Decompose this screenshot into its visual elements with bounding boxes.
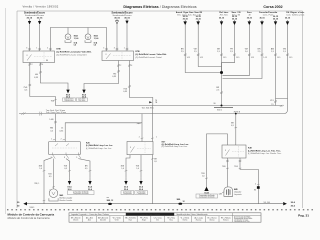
- svg-text:1,6: 1,6: [74, 44, 77, 46]
- svg-text:1,0: 1,0: [121, 168, 124, 170]
- pin ticks K35 right top: [105, 48, 128, 50]
- svg-text:Negro: Negro: [142, 220, 146, 222]
- svg-text:(L) Relé/Relè Limp. Lav. Lun.: (L) Relé/Relè Limp. Lav. Lun.: [162, 146, 188, 148]
- svg-text:Legenda / Leyenda — Cores dos: Legenda / Leyenda — Cores dos Fios / Col…: [71, 214, 109, 216]
- svg-text:E7B: E7B: [57, 49, 62, 51]
- wire S13 to washer pump M45: [53, 159, 55, 189]
- svg-text:8: 8: [64, 157, 65, 159]
- connector arrow X9 left: [66, 90, 69, 94]
- page edge shadow: [5, 8, 7, 214]
- svg-text:Limpiador: Limpiador: [234, 194, 242, 196]
- wire K35 left pin 4 to connector X9: [40, 63, 68, 86]
- svg-text:Sombreado/Oscuro: Sombreado/Oscuro: [25, 15, 45, 17]
- wire hook col4 to junction: [222, 25, 235, 71]
- bus2 right rounded rise to col7 line: [284, 99, 288, 114]
- svg-text:30-15: 30-15: [285, 17, 291, 19]
- wire hook col1 to junction: [185, 25, 220, 73]
- svg-text:Bomba Lavador: Bomba Lavador: [60, 200, 73, 202]
- svg-text:AM: AM: [271, 48, 274, 51]
- inline connector on right drop: [257, 186, 260, 189]
- svg-text:1: 1: [124, 47, 125, 49]
- svg-text:76/76 B: 76/76 B: [234, 111, 241, 113]
- relay K38 box: [222, 145, 246, 158]
- svg-text:(L) Relé/Relè Levant. Vidro El: (L) Relé/Relè Levant. Vidro Elét.: [136, 53, 168, 56]
- pin ticks K35 left bottom: [29, 63, 42, 65]
- svg-text:75B, 1: 75B, 1: [34, 183, 39, 185]
- pin ticks K38 bottom: [226, 160, 241, 162]
- svg-text:Rosa: Rosa: [169, 220, 173, 222]
- wire S13 to connector X3 right: [78, 159, 90, 178]
- svg-text:0,5: 0,5: [85, 168, 88, 170]
- wire K38 to bottom bus via right drop: [240, 158, 258, 204]
- wire K20 pin to connector X2 left: [126, 155, 130, 178]
- wire supply to K35 left pin b: [39, 25, 41, 51]
- connector open arrow into K35 right: [116, 19, 118, 21]
- svg-text:BC = Branco: BC = Branco: [208, 218, 217, 220]
- svg-text:30-15: 30-15: [219, 17, 225, 19]
- bus wire 1 main feed: [55, 105, 282, 107]
- wire K38 to wiper motor M45b: [227, 158, 229, 187]
- svg-text:Marrón: Marrón: [73, 220, 78, 222]
- connector arrow col2: [197, 20, 199, 21]
- washer pump motor M45: [49, 189, 58, 198]
- connector arrow X9 right: [82, 90, 85, 94]
- bus wire 2: [19, 113, 284, 115]
- footer strip dark title: [126, 213, 174, 216]
- svg-text:1-15: 1-15: [187, 57, 190, 59]
- page break dashed line: [7, 209, 313, 211]
- svg-text:1-15: 1-15: [277, 57, 280, 59]
- svg-text:HG: HG: [113, 73, 116, 75]
- svg-text:(L) Relé/Relè Levant. Cristal: (L) Relé/Relè Levant. Cristal: [136, 56, 163, 59]
- connector arrow X2 left: [125, 178, 127, 181]
- svg-text:30-15: 30-15: [259, 17, 265, 19]
- bottom bus wire: [27, 203, 283, 205]
- connector arrow col8: [287, 20, 289, 21]
- svg-text:VM = Vermelho: VM = Vermelho: [125, 218, 136, 220]
- svg-text:Rel. Inter.: Rel. Inter.: [220, 13, 229, 16]
- svg-text:Naranja: Naranja: [196, 220, 202, 222]
- bus2 pass-through connector: [39, 112, 42, 116]
- svg-text:4: 4: [42, 64, 43, 66]
- boxed destination label under X3 arrows: [68, 191, 95, 195]
- svg-text:Versão / Versión 1993/02: Versão / Versión 1993/02: [23, 5, 59, 9]
- bottom bus junction blob: [178, 203, 182, 205]
- svg-text:30-15: 30-15: [114, 17, 120, 19]
- boxed destination label under X1: [196, 194, 218, 198]
- svg-text:Rojo: Rojo: [129, 220, 132, 222]
- svg-text:15: 15: [61, 128, 63, 130]
- svg-text:RS = Rosa: RS = Rosa: [167, 218, 175, 220]
- svg-text:2: 2: [61, 139, 62, 141]
- wire K35 right pin to connector X9 right: [84, 61, 119, 86]
- junction node dot: [220, 71, 223, 74]
- svg-text:36B,: 36B,: [177, 199, 181, 201]
- svg-text:Corsa 2002: Corsa 2002: [263, 5, 282, 9]
- svg-text:1-15: 1-15: [251, 57, 254, 59]
- relay K20 box: [127, 142, 153, 155]
- svg-text:86: 86: [46, 60, 48, 62]
- svg-text:HG: HG: [35, 74, 38, 76]
- connector arrow col5: [248, 20, 250, 21]
- wire K35 left pin 2 to bus1: [30, 63, 56, 106]
- boxed destination labels under X2 arrows: [121, 191, 134, 195]
- svg-text:0,35: 0,35: [60, 130, 64, 132]
- wire rail between K35 relays feeding motors: [50, 28, 106, 52]
- connector arrow col6: [261, 20, 263, 21]
- svg-text:1-15: 1-15: [289, 57, 292, 59]
- svg-text:2: 2: [120, 65, 121, 67]
- svg-text:Gris: Gris: [156, 220, 159, 222]
- svg-text:30: 30: [213, 103, 215, 105]
- connector arrow col3: [221, 20, 223, 21]
- svg-text:986: 986: [50, 128, 53, 130]
- svg-text:X4, 1-B: X4, 1-B: [264, 202, 271, 204]
- wire hook col5 to junction: [223, 25, 250, 76]
- svg-text:5: 5: [76, 157, 77, 159]
- svg-text:BR = Marrom: BR = Marrom: [71, 218, 81, 220]
- connector arrow into pin 3 of K35 left: [29, 19, 31, 21]
- svg-text:M45: M45: [234, 188, 238, 191]
- svg-text:(L) Relé/Relè Limp. Lav. Lse.: (L) Relé/Relè Limp. Lav. Lse.: [86, 148, 112, 150]
- connector arrow col7: [275, 20, 277, 21]
- svg-text:Verde: Verde: [115, 220, 119, 222]
- connector arrow X2 right: [140, 178, 142, 181]
- svg-text:1: 1: [156, 136, 157, 138]
- svg-text:1,0: 1,0: [136, 168, 139, 170]
- svg-text:(L) Relé/Relè Limp. Lav. Trás.: (L) Relé/Relè Limp. Lav. Trás. Tras.: [248, 150, 281, 152]
- switch S13 wiper switch box: [49, 142, 81, 155]
- connector arrow into K35 right: [126, 19, 128, 21]
- svg-text:1,6: 1,6: [94, 44, 97, 46]
- svg-text:X30 1: X30 1: [30, 207, 35, 209]
- wire stub motor M32: [67, 28, 69, 34]
- svg-text:30-15: 30-15: [37, 18, 43, 20]
- svg-text:2: 2: [139, 136, 140, 138]
- bottom bus right continuation arrow: [283, 202, 287, 205]
- wire K20 pin 5 to bottom bus: [151, 155, 153, 204]
- svg-text:0,5: 0,5: [50, 130, 53, 132]
- svg-text:Módulo de Controle da Carroçar: Módulo de Controle da Carroçaria: [8, 212, 55, 216]
- wire stub motor M33: [87, 28, 89, 34]
- motor M33 window lift motor: [85, 34, 91, 40]
- wire supply to K35 left pin a: [29, 25, 31, 51]
- svg-text:0,5: 0,5: [154, 161, 157, 163]
- wire K20 pin to connector X2 right: [140, 155, 142, 178]
- svg-text:5: 5: [103, 47, 104, 49]
- svg-text:VM: VM: [194, 49, 197, 51]
- svg-text:3: 3: [26, 47, 27, 49]
- pin ticks K35 right bottom: [117, 65, 131, 67]
- svg-text:1: 1: [51, 139, 52, 141]
- svg-text:Habana: Habana: [223, 220, 229, 222]
- wire hook col2 to junction: [198, 25, 221, 67]
- svg-text:2: 2: [255, 183, 256, 185]
- svg-text:Com. Tablero y Instr.: Com. Tablero y Instr.: [286, 13, 305, 16]
- svg-text:0,5: 0,5: [64, 168, 67, 170]
- svg-text:30-15: 30-15: [232, 18, 238, 20]
- svg-text:1-15: 1-15: [236, 57, 239, 59]
- switch arms below S13: [53, 155, 82, 159]
- svg-text:E7B: E7B: [136, 51, 141, 53]
- svg-text:36B, 12: 36B, 12: [107, 200, 114, 202]
- svg-text:30-15: 30-15: [124, 17, 130, 19]
- svg-text:1-15: 1-15: [200, 57, 203, 59]
- svg-text:(L) Relé/Relè Levant. Cristal: (L) Relé/Relè Levant. Cristal Del.: [57, 53, 88, 56]
- svg-text:5: 5: [47, 47, 48, 49]
- frame border: [17, 11, 303, 208]
- svg-text:75/6: 75/6: [234, 166, 238, 168]
- bottom bus junction blob left: [108, 203, 112, 205]
- connector triangle X1: [204, 187, 208, 191]
- svg-text:3: 3: [114, 47, 115, 49]
- motor M32 window lift motor: [65, 34, 71, 40]
- svg-text:1,0: 1,0: [39, 168, 42, 170]
- svg-text:Blanco: Blanco: [210, 220, 215, 222]
- wire S13 to connector X3 left: [66, 159, 70, 178]
- svg-text:0,5: 0,5: [49, 176, 52, 178]
- pin ticks switch S13 top: [53, 138, 65, 141]
- bus1 pass-through mark right: [280, 105, 284, 107]
- wire S13 to bottom bus: [44, 158, 53, 204]
- svg-text:30-6: 30-6: [291, 205, 296, 207]
- svg-text:CZ = Cinza: CZ = Cinza: [154, 218, 162, 220]
- connector arrow into pin 1 of K35 left: [39, 19, 41, 21]
- svg-text:VD = Verde: VD = Verde: [113, 218, 121, 220]
- svg-text:Diagramas Elétricas / Diagrama: Diagramas Elétricas / Diagramas Eléctric…: [123, 5, 196, 9]
- wiper motor M45b dome: [224, 187, 233, 196]
- svg-text:Módulo de Control de la Carroc: Módulo de Control de la Carrocería: [8, 216, 50, 220]
- wire col7 to bus1: [275, 25, 277, 106]
- relay K35 right coil and contact: [106, 54, 111, 60]
- connector arrow col1: [184, 20, 186, 21]
- svg-text:X13: X13: [270, 100, 273, 102]
- wire supply to K35 right pin a: [116, 24, 118, 51]
- svg-text:30-15: 30-15: [247, 17, 253, 19]
- svg-text:(L) Relé/Relè Limp. Lav. Parab: (L) Relé/Relè Limp. Lav. Parabr. Tras.: [248, 153, 282, 155]
- connector arrow X3 right: [89, 178, 91, 181]
- wire hook col6 to junction: [223, 25, 263, 79]
- wire from junction to bus1: [221, 74, 223, 106]
- svg-text:Localización en la Caja: Localización en la Caja: [234, 221, 250, 223]
- wire from K20 column to switch S13 pin 2: [65, 123, 142, 142]
- wire K20 to bus2: [141, 114, 143, 142]
- svg-text:Trab. Cierre Puer. 10 mm: Trab. Cierre Puer. 10 mm: [46, 112, 67, 114]
- svg-text:Pag. 31: Pag. 31: [298, 214, 309, 218]
- wire K35 right pin 4 to bus1: [130, 61, 153, 106]
- svg-text:1-15: 1-15: [223, 57, 226, 59]
- svg-text:30-15: 30-15: [183, 18, 189, 20]
- svg-text:1,0: 1,0: [202, 176, 205, 178]
- svg-text:1: 1: [36, 47, 37, 49]
- svg-text:30-6: 30-6: [291, 202, 296, 204]
- wire supply to K35 right pin b: [126, 24, 128, 51]
- relay K35 left box: [23, 51, 55, 63]
- svg-text:75/6: 75/6: [222, 166, 226, 168]
- wire K20 to bus1: [151, 106, 153, 142]
- svg-text:(L) Relé/Relè Levantador Vidro: (L) Relé/Relè Levantador Vidro Elét.: [57, 51, 93, 54]
- svg-text:(L) Relé/Relè Limp. Lav. Lse.: (L) Relé/Relè Limp. Lav. Lse.: [86, 145, 113, 147]
- svg-text:X30 1: X30 1: [217, 109, 222, 111]
- pin ticks K35 left top: [28, 48, 52, 50]
- svg-text:VM: VM: [245, 49, 248, 51]
- relay K35 right box: [102, 51, 134, 61]
- wire bus2 to switch S13 pin 1: [54, 114, 56, 142]
- svg-text:Cores dos Fios / Colores: Cores dos Fios / Colores: [140, 214, 160, 216]
- svg-text:30-15: 30-15: [196, 18, 202, 20]
- svg-text:Identificação dos Cabos / Iden: Identificação dos Cabos / Identificación: [177, 213, 208, 216]
- svg-text:12: 12: [183, 201, 185, 203]
- wire col3 to junction: [221, 25, 223, 71]
- svg-text:4: 4: [131, 65, 132, 67]
- svg-text:VM: VM: [283, 49, 286, 51]
- svg-text:HG = Habana: HG = Habana: [221, 218, 231, 220]
- connector arrow X3 left: [69, 178, 71, 181]
- wire col8 hook to col7: [276, 25, 288, 99]
- wire bus2 to relay K38: [235, 114, 237, 145]
- wire K38 bypass to ground triangle: [207, 134, 228, 184]
- boxed destination labels under X9 arrows: [63, 98, 76, 101]
- footer legend box: [69, 213, 261, 222]
- svg-text:30-15: 30-15: [273, 18, 279, 20]
- svg-text:86: 86: [254, 189, 256, 191]
- svg-text:1-15: 1-15: [263, 57, 266, 59]
- bus2 left end ticks: [21, 112, 25, 115]
- svg-text:0,5: 0,5: [231, 125, 234, 127]
- bottom bus left continuation arrow: [23, 202, 27, 205]
- connector arrow col4: [234, 20, 236, 21]
- svg-text:2: 2: [32, 64, 33, 66]
- relay K35 left coil and contact: [27, 55, 32, 61]
